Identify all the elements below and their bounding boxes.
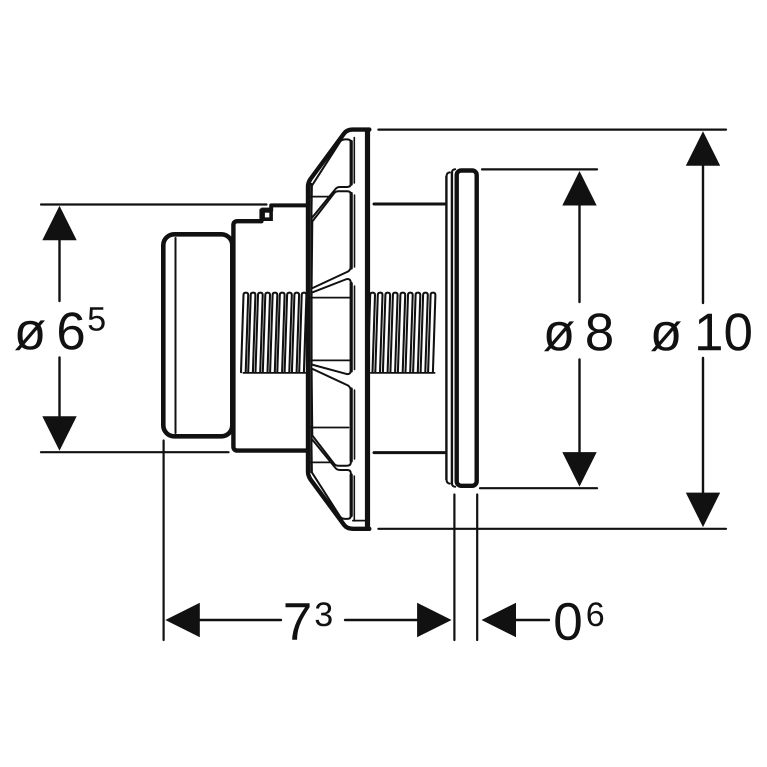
label-06-sup6 xyxy=(588,602,604,626)
dim 7³ ext right xyxy=(453,495,455,641)
dim ø 6⁵ ext top xyxy=(41,203,267,205)
label-06-0 xyxy=(555,603,580,641)
socket body outline xyxy=(233,221,308,450)
dim 0⁶ line xyxy=(515,619,549,621)
flange depth line e xyxy=(310,461,333,463)
button face line xyxy=(175,238,177,433)
dim ø 10 ext bottom xyxy=(378,528,726,530)
dim ø 10 ext top xyxy=(378,129,726,131)
label-o8-dia xyxy=(544,321,574,351)
label-o65-sup5 xyxy=(89,307,105,331)
flange window W2 xyxy=(312,191,351,288)
dim ø 8 ext top xyxy=(482,168,597,170)
button cap xyxy=(163,234,232,436)
anti-rotation lug hole xyxy=(265,213,269,218)
label-o65-dia xyxy=(15,320,45,350)
window right edge emphasis xyxy=(350,142,353,185)
flange clamping plate xyxy=(365,128,370,531)
thread left group xyxy=(241,293,306,373)
arrow ø 8 down xyxy=(562,452,596,487)
gasket layer outer xyxy=(445,177,447,480)
arrow ø 10 up xyxy=(686,131,720,166)
socket silhouette behind flange top xyxy=(374,203,445,206)
dim ø 6⁵ ext bottom xyxy=(41,451,229,453)
label-o10-dia xyxy=(651,321,681,351)
arrow 7³ left xyxy=(165,603,200,637)
flange depth line c xyxy=(311,359,350,361)
arrow ø 6⁵ down xyxy=(42,416,76,451)
flange window W1 xyxy=(311,139,351,218)
flange outer silhouette xyxy=(308,130,369,529)
flange cone inner wall xyxy=(310,184,312,472)
anti-rotation lug body xyxy=(261,208,273,221)
arrow ø 8 up xyxy=(562,171,596,206)
dim ø 8 ext bottom xyxy=(480,487,597,489)
thread right group xyxy=(368,293,436,373)
socket body top step xyxy=(261,205,308,221)
label-o65-6 xyxy=(59,312,83,350)
flange window W4 xyxy=(312,369,351,466)
socket silhouette behind flange bottom xyxy=(374,451,445,454)
flange window W6 inner ledge xyxy=(353,520,365,522)
arrow 7³ right xyxy=(417,603,452,637)
flange depth line a xyxy=(310,196,331,198)
actuator disc xyxy=(457,171,477,486)
dim 7³ ext left xyxy=(163,441,165,641)
flange depth line d xyxy=(309,427,349,429)
gasket layer inner xyxy=(451,172,453,483)
dim ø 6⁵ line xyxy=(58,240,60,416)
dim 7³ line xyxy=(199,619,417,621)
arrow ø 10 down xyxy=(686,493,720,527)
label-o10-10 xyxy=(698,313,751,351)
arrow ø 6⁵ up xyxy=(42,206,76,241)
label-73-sup3 xyxy=(316,602,332,626)
window far-edge companion lines xyxy=(353,138,355,184)
label-73-7 xyxy=(286,603,310,640)
dim 0⁶ ext xyxy=(476,495,478,641)
flange window mid xyxy=(312,279,351,374)
dim ø 8 line xyxy=(578,205,580,452)
flange window W6 xyxy=(311,439,351,519)
label-o8-8 xyxy=(587,313,612,351)
flange depth line b xyxy=(310,297,351,299)
arrow 0⁶ left xyxy=(482,603,517,637)
dim ø 10 line xyxy=(702,165,704,493)
